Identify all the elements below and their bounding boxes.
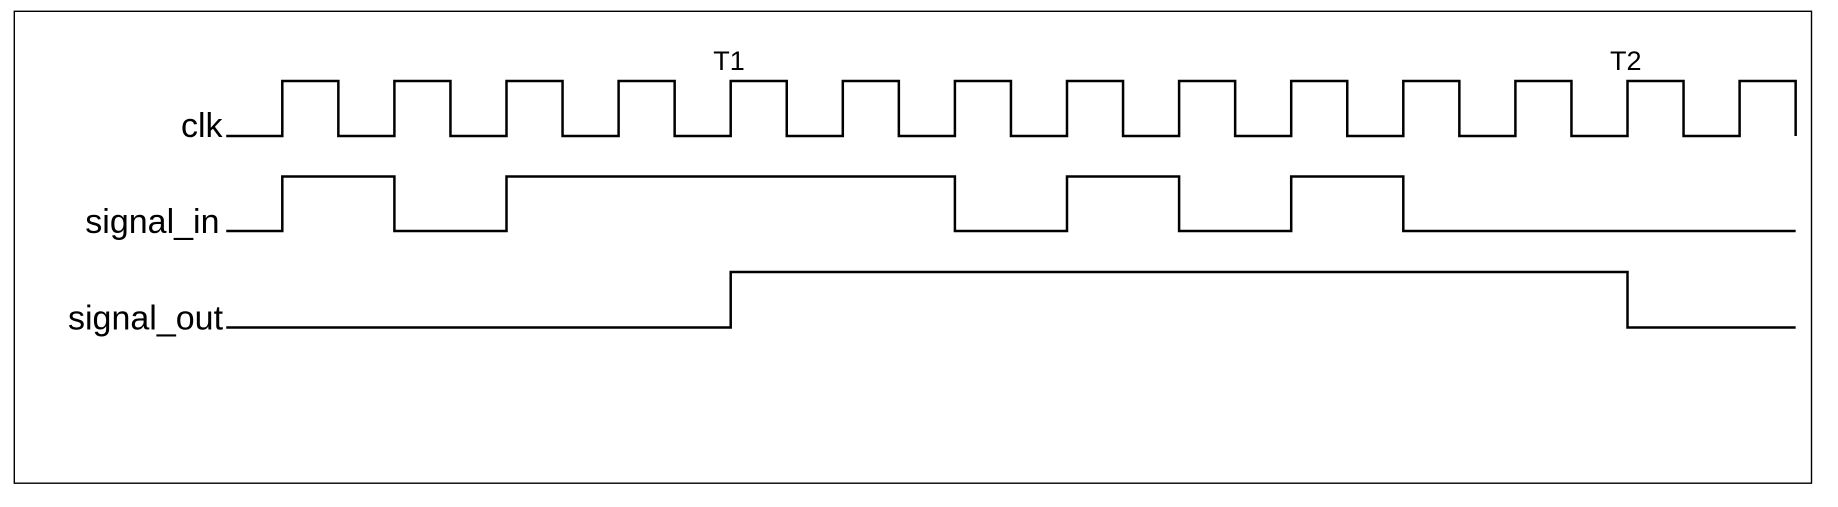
svg-text:T1: T1 — [713, 46, 745, 76]
svg-text:T2: T2 — [1610, 46, 1642, 76]
svg-text:signal_out: signal_out — [68, 300, 224, 338]
svg-text:clk: clk — [181, 107, 224, 145]
svg-text:signal_in: signal_in — [85, 203, 219, 241]
wire signal_out waveform — [226, 272, 1795, 328]
wire clk waveform — [226, 81, 1795, 136]
wire signal_in waveform — [226, 177, 1795, 232]
